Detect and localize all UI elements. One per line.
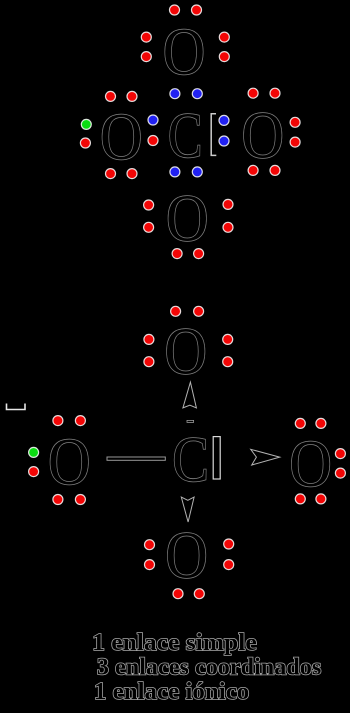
lone pair right of O right (structure 2) [335, 449, 345, 479]
svg-text:O: O [241, 98, 283, 172]
svg-text:O: O [163, 15, 205, 89]
lone pair below O left (structure 1) [106, 169, 138, 179]
svg-text:O: O [289, 427, 331, 501]
lone pair left of O bottom (structure 2) [145, 540, 155, 570]
lone pair left of O top (structure 2) [144, 334, 154, 366]
lone pair above O left (structure 1) [106, 91, 138, 101]
svg-text:O: O [48, 425, 90, 499]
svg-text:3 enlaces coordinados: 3 enlaces coordinados [97, 654, 321, 681]
lone pair left of O top (structure 1) [141, 32, 151, 62]
svg-text:1 enlace simple: 1 enlace simple [92, 629, 257, 656]
svg-text:O: O [166, 181, 208, 255]
lone pair right of O top (structure 1) [219, 32, 229, 62]
lone pair left of O bottom (structure 1) [144, 200, 154, 232]
lone pair right of O right (structure 1) [290, 117, 300, 147]
svg-text:O: O [164, 314, 206, 388]
lone pair right of O top (structure 2) [223, 334, 233, 366]
lone pair below O right (structure 1) [248, 165, 280, 175]
atom Cl center, letter l as bar (structure 2) [213, 437, 220, 479]
svg-text:O: O [165, 518, 207, 592]
lone pair right of O bottom (structure 2) [224, 539, 234, 570]
lone pair above O right (structure 2) [295, 418, 326, 428]
lone pair right of O bottom (structure 1) [223, 199, 233, 232]
O electron of simple bond (structure 1) [148, 136, 158, 146]
bracket fragment top-left (structure 2) [7, 404, 26, 410]
coordinate bond arrowhead right Cl to Oright (structure 2) [251, 449, 280, 465]
coordinate bond arrowhead down Cl to Obottom (structure 2) [181, 497, 194, 522]
lone pair above O top (structure 2) [171, 306, 204, 316]
simple bond line Oleft-Cl (structure 2) [107, 457, 165, 460]
Cl electron of simple bond (structure 1) [148, 115, 158, 125]
electron left of O left (structure 2) [29, 467, 39, 477]
lone pair below O left (structure 2) [53, 495, 86, 505]
svg-text:1 enlace iónico: 1 enlace iónico [94, 678, 249, 705]
lone pair below O right (structure 2) [295, 494, 326, 504]
coordinate bond pair Cl-Obottom (structure 1) [170, 167, 202, 177]
gained electron green on O left (structure 1) [81, 119, 91, 129]
svg-text:C: C [172, 424, 209, 495]
lone pair below O bottom (structure 2) [173, 589, 204, 599]
electron left of O left (structure 1) [80, 138, 90, 148]
arrow tail dash up (structure 2) [187, 420, 194, 422]
lone pair below O bottom (structure 1) [172, 249, 204, 259]
svg-text:C: C [168, 100, 203, 172]
lone pair above O left (structure 2) [53, 416, 86, 426]
coordinate bond pair Cl-Oright (structure 1) [219, 115, 229, 146]
lone pair above O right (structure 1) [248, 88, 280, 98]
atom Cl center, letter l as bracket shape (structure 1) [211, 114, 216, 156]
svg-text:O: O [100, 100, 142, 174]
coordinate bond pair Cl-Otop (structure 1) [170, 89, 202, 99]
lone pair above O top (structure 1) [170, 5, 202, 15]
coordinate bond arrowhead up Cl to Otop (structure 2) [183, 382, 197, 408]
gained electron green on O left (structure 2) [29, 447, 39, 457]
